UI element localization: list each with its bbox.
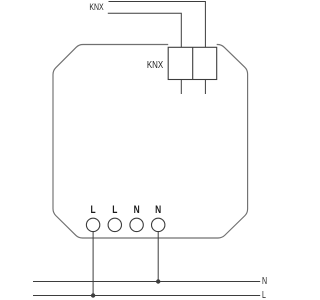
terminal L2 (108, 218, 121, 231)
mains L line (33, 295, 260, 297)
wire terminal N2 to mains N (157, 232, 159, 282)
wire KNX bus lower conductor (108, 13, 182, 47)
svg-text:KNX: KNX (89, 2, 104, 12)
svg-text:L: L (112, 204, 117, 216)
terminal N1 (130, 218, 143, 231)
junction N2/N line (156, 279, 160, 283)
svg-text:N: N (134, 204, 140, 216)
pin 2 of KNX connector (204, 80, 206, 95)
svg-text:L: L (262, 289, 266, 300)
mains N line (33, 281, 260, 283)
svg-text:KNX: KNX (147, 59, 163, 70)
flush-mounted box outline (53, 45, 248, 239)
terminal N2 (152, 218, 165, 231)
svg-text:N: N (262, 275, 267, 286)
pin 1 of KNX connector (180, 80, 182, 95)
KNX bus connector divider (192, 47, 194, 79)
wire KNX bus upper conductor (109, 2, 206, 48)
junction L1/L line (91, 293, 95, 297)
svg-text:N: N (155, 204, 161, 216)
terminal L1 (86, 218, 99, 231)
svg-text:L: L (91, 204, 96, 216)
wire terminal L1 to mains L (92, 232, 94, 296)
KNX bus connector terminal block U1 (168, 47, 217, 79)
